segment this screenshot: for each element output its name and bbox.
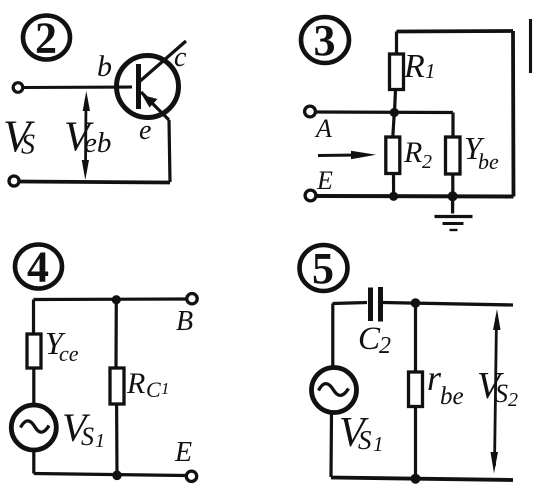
wire top of circuit 3 <box>397 29 514 33</box>
wire top-right of circuit 5 <box>383 303 513 306</box>
current arrow <box>318 151 376 159</box>
svg-text:S: S <box>21 130 35 161</box>
wire emitter to bottom <box>169 120 170 182</box>
svg-text:3: 3 <box>314 16 336 65</box>
junction top of rbe <box>411 298 421 308</box>
svg-text:be: be <box>478 149 499 174</box>
svg-text:ce: ce <box>59 341 79 366</box>
label rbe <box>427 358 464 410</box>
resistor R2 <box>386 113 400 197</box>
svg-text:1: 1 <box>161 379 170 398</box>
svg-text:be: be <box>440 383 464 410</box>
wire bottom of circuit 2 <box>20 182 171 183</box>
label RC1 <box>126 367 170 402</box>
svg-text:A: A <box>314 114 332 143</box>
svg-text:1: 1 <box>373 432 384 456</box>
label VS1 (circuit 5) <box>339 410 384 456</box>
resistor R1 <box>390 32 404 113</box>
svg-text:C: C <box>358 321 381 357</box>
terminal E (circuit 4) <box>186 471 196 481</box>
svg-text:c: c <box>174 42 187 73</box>
Veb measurement arrow <box>82 91 90 180</box>
figure number 4 <box>15 243 62 292</box>
wire base <box>24 85 133 89</box>
figure number 5 <box>300 244 348 293</box>
terminal A <box>305 106 316 117</box>
svg-text:E: E <box>174 437 192 468</box>
capacitor C2 <box>371 287 381 322</box>
svg-text:2: 2 <box>508 389 518 411</box>
svg-text:E: E <box>316 166 333 195</box>
svg-text:S: S <box>358 425 372 455</box>
wire right vertical of circuit 3 <box>511 31 515 197</box>
VS2 measurement arrow <box>491 309 501 474</box>
svg-text:5: 5 <box>312 244 334 293</box>
svg-text:1: 1 <box>425 59 436 83</box>
terminal B <box>187 294 197 304</box>
junction top of RC1 <box>112 295 121 304</box>
terminal e (bottom-left of circuit 2) <box>9 176 19 186</box>
terminal b (top-left of circuit 2) <box>13 83 23 93</box>
svg-text:R: R <box>403 136 422 169</box>
figure number 2 <box>23 14 70 63</box>
wire bottom of circuit 3 <box>317 194 514 199</box>
admittance Ybe <box>446 113 461 197</box>
figure number 3 <box>301 16 349 65</box>
source VS1 (circuit 4) <box>11 405 56 450</box>
resistor RC1 <box>110 300 124 476</box>
svg-text:B: B <box>176 306 193 337</box>
svg-text:R: R <box>403 48 425 85</box>
svg-text:eb: eb <box>84 127 111 159</box>
wire bottom of circuit 5 <box>331 478 513 481</box>
svg-text:C: C <box>146 377 161 402</box>
wire top of circuit 4 <box>34 297 188 301</box>
junction bottom of rbe <box>411 474 421 484</box>
wire top-left of circuit 5 <box>333 303 368 304</box>
junction bottom of RC1 <box>112 471 122 481</box>
svg-text:1: 1 <box>95 430 105 452</box>
admittance Yce <box>27 300 41 406</box>
label Ybe <box>464 130 499 174</box>
junction R2 bottom <box>389 192 398 201</box>
transistor Q1 <box>117 41 187 120</box>
wire node A <box>316 110 453 114</box>
terminal E <box>305 190 316 201</box>
svg-text:b: b <box>97 50 112 83</box>
label Veb <box>64 115 111 161</box>
junction at R1/R2 <box>390 108 399 117</box>
svg-text:2: 2 <box>35 14 57 63</box>
svg-text:S: S <box>81 422 94 451</box>
svg-text:4: 4 <box>27 243 49 292</box>
label VS2 <box>477 365 518 411</box>
svg-text:R: R <box>126 367 145 400</box>
ground <box>435 200 473 230</box>
label R2 <box>403 136 432 173</box>
wire source to bottom (circuit 4) <box>32 450 35 474</box>
svg-text:e: e <box>139 115 151 146</box>
wire bottom of circuit 4 <box>34 474 186 476</box>
junction Ybe bottom <box>448 191 458 201</box>
svg-text:2: 2 <box>379 333 391 359</box>
svg-text:2: 2 <box>422 151 432 173</box>
label R1 <box>403 48 436 85</box>
scan mark at right edge <box>529 19 532 73</box>
label Yce <box>45 325 79 366</box>
label VS <box>3 112 35 162</box>
label C2 <box>358 321 391 359</box>
label VS1 (circuit 4) <box>62 405 105 452</box>
resistor rbe <box>409 303 423 479</box>
source VS1 (circuit 5) <box>312 304 357 478</box>
